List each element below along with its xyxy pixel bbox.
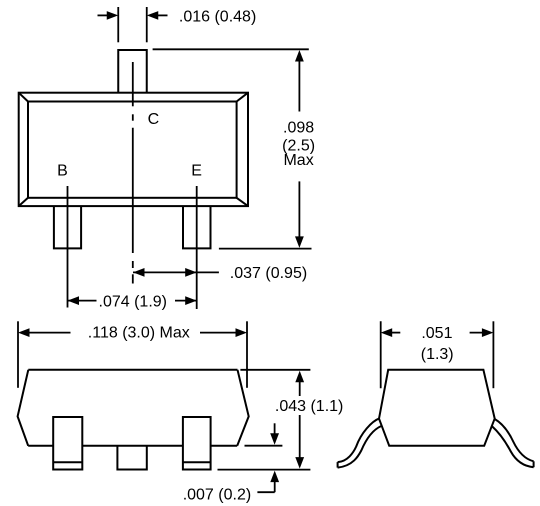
front view: body left side [18,370,29,446]
svg-text:.098: .098 [283,120,314,137]
svg-text:Max: Max [283,152,313,169]
top view: corner bevel top-right [237,93,248,102]
ledge reference line at body bottom level [245,445,283,447]
svg-text:.074 (1.9): .074 (1.9) [99,293,167,310]
side view: left gull-wing lead [338,418,380,462]
svg-text:.007 (0.2): .007 (0.2) [183,487,251,504]
dimension .051 (1.3): extension lines [380,321,382,388]
dimension .098 (2.5) Max: bottom extension line [219,248,312,250]
front view: body top edge [28,369,237,371]
side view: body outline [379,370,495,446]
front view: body right side [237,370,249,446]
dimension .051 (1.3): left arrow [385,332,400,334]
dimension .007 (0.2): down arrow to ledge [274,423,276,439]
dimension .118 (3.0) Max: left arrow [23,332,71,334]
dimension .037 (0.95): line with arrows and leader [133,271,219,273]
dimension .098 (2.5) Max: vertical line lower with arrow [298,181,300,243]
front view: left lead [53,417,82,470]
side view: right gull-wing lead [494,419,533,462]
svg-text:.118 (3.0) Max: .118 (3.0) Max [88,325,190,342]
svg-text:.037 (0.95): .037 (0.95) [230,265,307,282]
dimension .051 (1.3): right arrow [470,332,489,334]
top view: base lead (bottom left) [54,206,81,248]
dimension .043 (1.1): top reference line [240,369,310,371]
svg-text:E: E [191,162,202,179]
front view: body bottom edge segments [28,445,53,447]
dimension .043 (1.1): text [271,396,347,415]
front view: right lead [183,417,211,470]
extension line through E lead [196,186,198,309]
top view: package body inner outline [28,102,237,198]
dimension .043 (1.1): vertical line upper with up arrow [299,375,301,398]
dimension .074 (1.9): left arrow [68,300,97,302]
front view: center lead [117,446,146,470]
svg-text:(1.3): (1.3) [421,346,454,363]
dimension .118 (3.0) Max: extension lines [17,321,19,388]
dimension .074 (1.9): right arrow [175,300,197,302]
dimension .098 (2.5) Max: vertical line upper with arrow [298,55,300,112]
dimension .098 (2.5) Max: top extension line [153,48,309,50]
svg-text:B: B [57,162,68,179]
dimension .043 (1.1): bottom reference line [218,469,311,471]
dimension .007 (0.2): leader [257,491,274,493]
dimension .118 (3.0) Max: right arrow [200,332,242,334]
top view: emitter lead (bottom right) [183,206,211,248]
dimension .043 (1.1): vertical line lower with down arrow [299,414,301,465]
top view: collector tab lead [118,50,147,93]
top view: corner bevel bottom-left [19,198,28,206]
svg-text:.016 (0.48): .016 (0.48) [179,9,256,26]
svg-text:C: C [148,111,160,128]
dimension .016 (0.48): extension lines [117,7,119,42]
dimension .016 (0.48): right arrow [157,14,168,16]
svg-text:.051: .051 [421,325,452,342]
top view: corner bevel top-left [19,93,28,102]
centerline (dash-dot) through collector [132,62,134,106]
extension line through B lead [67,186,69,308]
svg-text:.043 (1.1): .043 (1.1) [275,398,343,415]
dimension .007 (0.2): up arrow to seating line [274,478,276,492]
dimension .016 (0.48): left arrow [98,14,109,16]
top view: corner bevel bottom-right [237,198,248,206]
top view: package body outer outline [19,93,248,206]
